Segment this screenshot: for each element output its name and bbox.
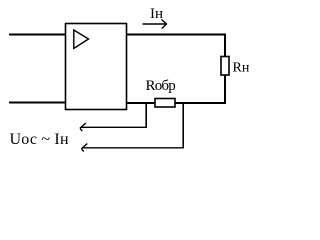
svg-text:Uос ~ Iн: Uос ~ Iн xyxy=(10,131,69,148)
resistor Rн xyxy=(221,57,229,76)
svg-text:Rн: Rн xyxy=(233,61,250,76)
wire output top xyxy=(127,35,226,58)
wire Rн lower lead xyxy=(224,74,226,104)
wire feedback tap B (right of Rобр) xyxy=(182,103,184,148)
svg-text:Iн: Iн xyxy=(150,6,163,22)
amplifier U1 box xyxy=(66,24,127,110)
arrow Iн direction xyxy=(143,20,167,29)
wire input bottom xyxy=(9,102,65,104)
feedback arrow 2 xyxy=(81,144,184,152)
wire feedback tap A (left of Rобр) xyxy=(145,103,147,127)
resistor Rобр xyxy=(155,99,175,108)
svg-text:Rобр: Rобр xyxy=(146,78,176,94)
amplifier triangle symbol xyxy=(74,30,89,49)
wire bottom return xyxy=(127,102,226,104)
wire input top xyxy=(9,34,65,36)
feedback arrow 1 xyxy=(80,123,147,131)
